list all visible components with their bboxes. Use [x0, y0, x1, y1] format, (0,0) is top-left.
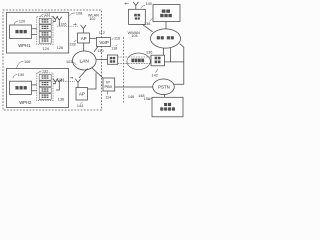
svg-text:110: 110 — [98, 49, 104, 53]
wire PBX to PSTN — [115, 86, 154, 88]
wire processor2 to transceivers — [32, 85, 37, 91]
transceiver box 1b — [39, 25, 51, 31]
svg-text:134: 134 — [58, 78, 64, 82]
text remote phone line2 — [160, 107, 163, 110]
svg-text:112: 112 — [99, 31, 105, 35]
wireless arrow 1 — [73, 24, 76, 26]
modem box — [108, 55, 118, 64]
svg-text:132: 132 — [42, 70, 48, 74]
wire controller to WWAN — [165, 22, 167, 30]
antenna 1a — [53, 16, 58, 22]
svg-text:138: 138 — [144, 22, 150, 26]
premises dashed box 102 — [3, 10, 102, 110]
svg-text:114: 114 — [105, 96, 111, 100]
wireless link 1 dotted — [57, 25, 79, 27]
svg-text:PSTN: PSTN — [158, 84, 169, 89]
svg-text:128: 128 — [69, 42, 75, 46]
dashed link modem lower — [118, 63, 151, 65]
AP box 2 — [76, 88, 88, 101]
transceiver box 2a — [39, 75, 51, 81]
WWAN ellipse 104 — [151, 29, 181, 48]
text processor1 — [15, 30, 18, 33]
text transceiver 2a — [42, 75, 44, 76]
BS antenna — [133, 2, 138, 9]
leader 150 — [148, 98, 152, 101]
svg-text:LAN: LAN — [80, 58, 90, 64]
handset sub-box WPH1 108 — [7, 12, 69, 53]
wire gateway to right — [165, 61, 184, 63]
svg-text:118: 118 — [111, 46, 117, 50]
AP1 antenna — [81, 25, 86, 33]
simulated CJK text blobs — [15, 10, 175, 111]
text transceiver 2c — [42, 88, 44, 89]
wireless link 2 dotted — [54, 80, 75, 82]
svg-text:126: 126 — [60, 23, 66, 27]
text controller line1 — [162, 10, 166, 13]
wire AP1 to LAN — [83, 43, 85, 52]
processor box 120 — [10, 25, 32, 39]
svg-text:116: 116 — [114, 36, 120, 40]
wireless arrow 2 — [70, 77, 73, 79]
VoIP box 110 — [96, 38, 110, 47]
svg-text:VoIP: VoIP — [99, 40, 109, 45]
text transceiver 1c — [42, 32, 44, 33]
processor box 130 — [10, 81, 32, 94]
dashed link modem upper — [118, 56, 151, 58]
svg-text:PBX: PBX — [105, 84, 113, 89]
wire processor1 to transceivers — [32, 29, 37, 35]
IP PBX box 114 — [103, 78, 115, 91]
text labels follow — [13, 2, 170, 108]
wire LAN to AP2 diagonal — [79, 69, 88, 79]
transceiver box 1c — [39, 31, 51, 36]
svg-text:122: 122 — [44, 13, 50, 17]
transceiver box 1a — [39, 18, 51, 24]
svg-text:106: 106 — [24, 60, 30, 64]
text processor2 — [15, 86, 18, 89]
wire LAN to modem — [97, 59, 108, 61]
text remote phone line1 — [164, 103, 167, 106]
transceiver container 132 dashed — [37, 73, 53, 101]
svg-text:AP: AP — [81, 36, 87, 41]
wire BS to WWAN diagonal — [143, 24, 153, 31]
text controller line2 — [160, 14, 163, 17]
wire WWAN right to PSTN — [174, 44, 184, 85]
antenna 1b — [57, 17, 62, 27]
svg-text:WPH2: WPH2 — [19, 100, 32, 105]
wire WWAN to gateway box — [163, 48, 165, 55]
transceiver box 2d — [39, 94, 51, 100]
text base station — [134, 14, 137, 17]
central controller box 138 — [153, 5, 180, 22]
svg-text:WPH1: WPH1 — [18, 43, 31, 48]
svg-text:144: 144 — [77, 104, 83, 108]
svg-text:150: 150 — [144, 97, 150, 101]
boundary dashed vertical 144 — [123, 37, 125, 103]
wire VoIP to LAN diagonal — [94, 47, 98, 52]
text gateway box — [155, 57, 158, 60]
svg-text:136: 136 — [58, 97, 64, 101]
svg-text:124: 124 — [43, 47, 49, 51]
transceiver box 2c — [39, 88, 51, 93]
PSTN ellipse — [153, 79, 175, 95]
AP box 128 — [78, 33, 90, 43]
AP2 antenna — [75, 79, 80, 88]
transceiver container 122 dashed — [37, 17, 53, 45]
text transceiver 1d — [42, 38, 44, 39]
MSC ellipse 142 — [127, 53, 150, 69]
svg-text:140: 140 — [146, 2, 152, 6]
text transceiver 2d — [42, 95, 44, 96]
svg-text:102: 102 — [89, 17, 95, 21]
text transceiver 2b — [42, 82, 44, 83]
text MSC ellipse — [131, 59, 134, 63]
text transceiver 1a — [42, 19, 44, 20]
svg-text:126: 126 — [57, 46, 63, 50]
svg-text:AP: AP — [79, 92, 85, 97]
base station box 140 — [129, 9, 146, 24]
text WWAN ellipse — [157, 36, 160, 39]
svg-text:104: 104 — [131, 34, 137, 38]
svg-text:108: 108 — [76, 12, 82, 16]
svg-text:136: 136 — [146, 50, 152, 54]
remote phone box 150 — [152, 97, 183, 117]
transceiver box 1d — [39, 37, 51, 43]
handset sub-box WPH2 106 — [7, 69, 69, 108]
wire WWAN to trunk — [170, 48, 172, 62]
svg-text:120: 120 — [19, 20, 25, 24]
antenna 2b — [56, 79, 62, 90]
LAN ellipse — [73, 51, 97, 70]
svg-text:130: 130 — [18, 73, 24, 77]
transceiver box 2b — [39, 81, 51, 87]
wireless arrow BS — [125, 3, 129, 5]
wire AP2 right L to LAN — [88, 73, 97, 90]
wire LAN to PBX diagonal — [92, 68, 104, 79]
antenna 2a — [53, 78, 58, 84]
svg-text:146: 146 — [128, 95, 134, 99]
gateway box — [151, 55, 165, 66]
text modem box — [110, 57, 112, 59]
text transceiver 1b — [42, 26, 44, 27]
svg-text:102: 102 — [66, 60, 72, 64]
wire AP1 to VoIP — [90, 37, 97, 39]
wire PSTN to remote phone — [164, 95, 166, 98]
svg-text:142: 142 — [152, 73, 158, 77]
